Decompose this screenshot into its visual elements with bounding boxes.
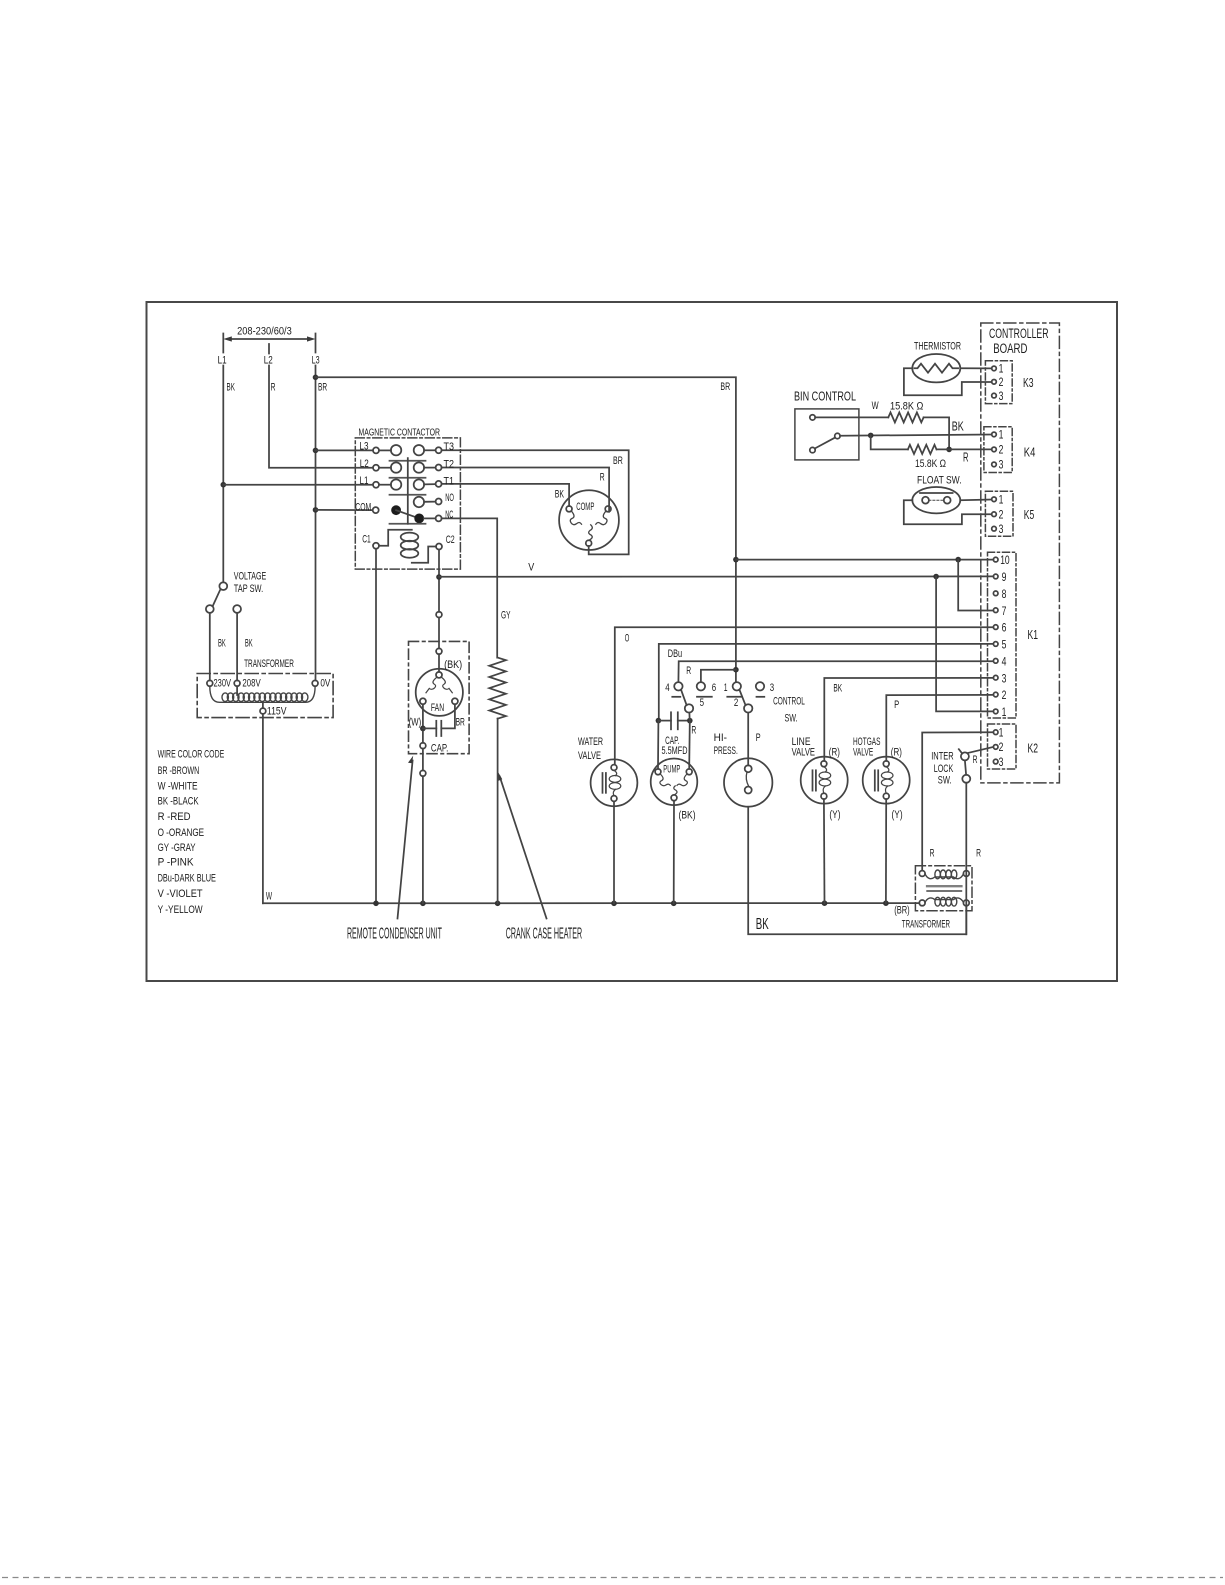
svg-text:208-230/60/3: 208-230/60/3 [237,326,292,338]
svg-text:9: 9 [1002,570,1007,584]
svg-text:V -VIOLET: V -VIOLET [158,888,203,900]
wire 208V tap into winding [236,686,238,695]
wire V line to K1 pin 9 [439,575,993,577]
wire C1 drop to bus [375,549,377,904]
svg-text:CONTROL: CONTROL [773,695,805,707]
svg-text:THERMISTOR: THERMISTOR [914,341,961,353]
svg-text:R: R [691,725,696,737]
wire NC link [424,517,436,519]
wire K1 pin4 to control sw 4 [678,661,993,682]
wire 115V tap [262,702,264,708]
transformer terminal 230V [207,680,213,686]
svg-text:BK: BK [245,638,253,650]
svg-text:GY -GRAY: GY -GRAY [158,842,196,854]
svg-text:230V: 230V [214,678,232,690]
node bus-watervalve [611,901,617,907]
wire pump right lead [688,721,691,769]
wire L3 vertical [315,366,317,681]
node R junction [946,447,952,453]
contactor terminal COM [373,507,379,513]
svg-text:(Y): (Y) [892,809,903,821]
svg-text:BK: BK [833,683,842,695]
wire line valve drop [823,799,826,903]
svg-text:3: 3 [999,458,1004,472]
svg-text:15.8K Ω: 15.8K Ω [915,458,946,470]
bin control box [795,409,859,460]
dimension line 208-230/60/3 [223,334,315,354]
wire condenser drop to bus [422,776,424,903]
wire thermistor to K3 pin1 [960,367,991,369]
fan feed terminal [436,648,442,654]
svg-text:3: 3 [770,682,774,694]
wire C2 to fan feed [436,612,442,618]
svg-text:BR: BR [318,381,327,393]
svg-text:K2: K2 [1028,741,1039,756]
wire BR top run to right and down [316,377,736,682]
interlock switch [959,749,971,783]
connector K1 [988,552,1017,718]
wire control sw 5 drop [688,713,690,721]
svg-text:W: W [266,891,273,903]
svg-text:2: 2 [999,740,1004,754]
BR transformer core [927,885,961,887]
capacitor fan CAP [423,704,455,736]
transformer winding [210,686,315,702]
svg-text:R: R [930,847,935,859]
wire branch to control sw terminal 6 [701,670,736,682]
svg-text:VALVE: VALVE [792,746,815,758]
svg-text:INTER: INTER [931,750,954,762]
svg-text:FAN: FAN [431,702,444,714]
svg-text:LOCK: LOCK [934,763,954,775]
node L3-COM junction [313,507,319,513]
contactor terminal T3 [436,447,442,453]
BR transformer secondary [919,900,925,906]
svg-text:NC: NC [445,509,453,521]
arrow to crank case heater [498,772,547,919]
svg-text:BK -BLACK: BK -BLACK [158,796,199,808]
wire K1 pin1 riser [936,577,993,712]
BR transformer box [915,866,972,911]
node pin10-pin7 junction [955,557,961,563]
svg-text:10: 10 [1000,553,1010,567]
svg-text:1: 1 [999,362,1004,376]
svg-text:SW.: SW. [938,775,952,787]
svg-text:1: 1 [999,493,1004,507]
svg-text:BR: BR [613,455,623,467]
svg-text:VALVE: VALVE [578,750,601,762]
svg-text:R: R [973,754,978,766]
wire control sw 2 drop [747,713,749,766]
capacitor CAP 5.5MFD [658,712,689,729]
node L3-BR junction [313,375,319,381]
terminal CAP [420,743,426,749]
contactor terminal L3 [373,447,379,453]
svg-text:W -WHITE: W -WHITE [158,780,198,792]
node bus-C1 [373,901,379,907]
svg-text:BK: BK [227,381,236,393]
wire float to K5 pin2 [904,500,992,524]
svg-text:2: 2 [1002,688,1007,702]
svg-text:2: 2 [999,508,1004,522]
svg-text:PRESS.: PRESS. [714,745,738,757]
svg-text:7: 7 [1002,604,1007,618]
svg-text:BK: BK [218,638,226,650]
svg-text:BR: BR [720,381,730,393]
contactor COM moving contact [391,505,401,515]
wire K1 pin3 to line valve [824,678,993,761]
wire interlock drop to transformer [965,783,967,935]
svg-text:L2: L2 [264,355,273,367]
wire 115V drop to bus [262,714,264,903]
svg-text:TRANSFORMER: TRANSFORMER [902,918,950,930]
svg-text:NO: NO [445,492,454,504]
svg-text:5: 5 [700,697,704,709]
node bus-hotgas [883,900,889,906]
svg-text:1: 1 [999,428,1004,442]
svg-text:BK: BK [756,916,769,933]
voltage tap switch [206,582,241,613]
svg-text:1: 1 [724,682,728,694]
contactor blade COM-NC [396,510,419,518]
compressor COMP [559,490,619,550]
svg-text:T3: T3 [444,441,455,453]
node cap left [656,718,662,724]
wire K1 pin2 to hotgas valve [886,695,993,761]
node bus-heater [495,901,501,907]
svg-text:SW.: SW. [785,712,798,724]
node BR-terminal6 junction [733,667,739,673]
wire K1 pin10 line [736,559,994,561]
wire L3 into contactor [316,449,373,451]
connector K5 [985,491,1013,536]
svg-text:BIN CONTROL: BIN CONTROL [794,389,856,403]
contactor pole L1 contacts [379,479,436,489]
svg-text:WIRE COLOR CODE: WIRE COLOR CODE [158,748,225,760]
svg-text:BK: BK [952,420,964,434]
contactor terminal L2 [373,465,379,471]
svg-text:BK: BK [555,489,565,501]
svg-text:4: 4 [665,682,669,694]
crank case heater resistor [489,658,506,719]
remote condenser unit box [409,641,470,753]
svg-text:P: P [894,699,899,711]
svg-text:VALVE: VALVE [853,746,873,758]
svg-text:DBu: DBu [668,648,682,660]
node cap right [687,718,693,724]
svg-text:C2: C2 [446,534,455,546]
terminal condenser plug [420,770,426,776]
contactor NC moving contact [414,514,424,524]
svg-text:HI-: HI- [714,732,728,744]
controller board box [981,323,1060,783]
contactor bridge bars [390,461,426,524]
page bottom dashed rule [2,1577,1223,1579]
svg-text:DBu-DARK BLUE: DBu-DARK BLUE [158,873,217,885]
node V-pin1 junction [933,574,939,580]
svg-text:6: 6 [712,682,716,694]
thermistor [912,354,960,382]
contactor terminal T1 [436,481,442,487]
svg-text:K3: K3 [1023,375,1034,390]
contactor terminal C2 [436,544,442,550]
node L1-contactor junction [221,482,227,488]
wire pump left lead [657,721,659,769]
connector K2 [988,724,1017,769]
wire T2 to COMP (R) [442,468,609,512]
svg-text:(Y): (Y) [829,809,840,821]
contactor pole L2 contacts [379,462,436,472]
float switch [912,487,960,513]
svg-text:FLOAT SW.: FLOAT SW. [917,475,962,487]
transformer box [197,674,333,718]
svg-text:R: R [600,471,605,483]
svg-text:4: 4 [1002,654,1007,668]
hi-press switch [724,758,772,806]
contactor terminal NO [436,499,442,505]
contactor NO contact [414,497,436,507]
node BR-pin10 junction [733,557,739,563]
wire thermistor to K3 pin2 [904,368,992,395]
wire COM from L3 [316,509,373,511]
svg-text:WATER: WATER [578,736,603,748]
svg-text:R: R [686,665,691,677]
contactor pole L3 contacts [379,445,436,455]
contactor coil [379,530,436,563]
connector K4 [984,427,1012,473]
BR transformer primary [919,871,925,877]
wire DBu K1 pin5 to pump [659,644,994,718]
svg-text:K5: K5 [1024,507,1035,522]
svg-text:3: 3 [999,389,1004,403]
resistor 15.8K ohm lower [908,445,937,454]
svg-text:O: O [625,633,630,645]
svg-text:L1: L1 [218,355,227,367]
wire T3 to COMP (BR) [442,450,629,554]
svg-text:R -RED: R -RED [158,811,191,823]
node fan cap junction [420,726,426,732]
svg-text:15.8K Ω: 15.8K Ω [890,400,923,412]
svg-text:CAP.: CAP. [431,742,448,754]
svg-text:MAGNETIC CONTACTOR: MAGNETIC CONTACTOR [359,427,441,438]
wire lower branch [871,435,908,449]
pump motor [651,759,698,806]
svg-text:COM: COM [355,502,371,514]
svg-text:(BK): (BK) [444,659,462,671]
wire K2 pin2 to interlock [968,747,994,753]
transformer terminal 208V [234,680,240,686]
wire tap 208V drop [236,613,238,681]
svg-text:TAP SW.: TAP SW. [234,583,263,595]
svg-text:T1: T1 [444,476,455,488]
svg-text:3: 3 [1002,671,1007,685]
svg-text:P -PINK: P -PINK [158,857,194,869]
svg-text:L3: L3 [312,355,320,367]
node C2-V junction [436,574,442,580]
node bus-linevalve [822,900,828,906]
transformer terminal 115V [260,708,266,714]
wire resistor to BK node [924,417,950,446]
svg-text:R: R [271,381,276,393]
wire hotgas valve drop [885,799,887,903]
svg-text:VOLTAGE: VOLTAGE [234,571,266,583]
wire K2 pin1 to BR transformer primary [922,732,993,870]
svg-text:L1: L1 [360,475,369,487]
contactor armature [407,458,409,524]
transformer terminal 0V [312,680,318,686]
svg-text:0V: 0V [320,678,330,690]
wire L1 vertical [222,366,224,583]
svg-text:1: 1 [999,726,1004,740]
contactor terminal L1 [373,482,379,488]
contactor terminal T2 [436,465,442,471]
svg-text:2: 2 [999,443,1004,457]
wire tap 230V drop [209,613,211,681]
bin control contacts [810,415,840,453]
svg-text:W: W [872,400,879,412]
svg-text:(R): (R) [829,746,840,758]
wire L2 vertical [269,366,373,468]
svg-text:CRANK CASE HEATER: CRANK CASE HEATER [506,925,582,942]
node bus-condenser [420,901,426,907]
wire water valve drop [613,801,615,903]
node BK junction [868,433,874,439]
resistor 15.8K ohm upper [888,412,923,422]
svg-text:CONTROLLER: CONTROLLER [989,326,1049,341]
magnetic contactor box [355,438,460,569]
svg-text:(R): (R) [891,746,902,758]
svg-text:R: R [963,450,969,464]
svg-text:K1: K1 [1028,627,1039,642]
line valve [801,757,848,804]
wire K1 pin7 riser [958,560,993,611]
svg-text:(W): (W) [409,717,422,729]
svg-text:BR -BROWN: BR -BROWN [158,765,200,777]
wire heater drop to bus [497,719,499,904]
wire R to K4 pin2 [937,448,992,450]
svg-text:1: 1 [1002,705,1007,719]
svg-text:PUMP: PUMP [663,764,680,776]
svg-text:208V: 208V [242,678,261,690]
wire W lead to resistor [815,416,888,418]
water valve [591,759,638,806]
wire cap drop [422,731,424,743]
svg-text:BOARD: BOARD [993,341,1027,356]
svg-text:(BK): (BK) [679,810,696,822]
node L3-contactor junction [313,448,319,454]
svg-text:T2: T2 [444,458,455,470]
svg-text:C1: C1 [362,534,371,546]
wire BK line to K4 pin1 [840,435,992,436]
arrow to remote condenser unit [398,756,414,919]
svg-text:8: 8 [1002,587,1007,601]
wire pump drop to bus [673,801,675,904]
svg-text:L3: L3 [360,441,369,453]
hotgas valve [863,757,910,804]
border frame [147,302,1118,981]
node bus-pump [671,901,677,907]
svg-text:COMP: COMP [576,501,594,513]
svg-text:V: V [528,562,535,574]
wire float to K5 pin1 [960,499,991,502]
svg-text:2: 2 [734,697,738,709]
wire hi-press drop to BK return [748,807,966,935]
svg-text:2: 2 [999,375,1004,389]
wire NC to GY drop [442,518,498,657]
svg-text:K4: K4 [1024,445,1036,460]
contactor terminal NC [436,515,442,521]
wire O line K1 pin6 to water valve [615,627,994,764]
svg-text:3: 3 [999,755,1004,769]
svg-text:5.5MFD: 5.5MFD [662,745,688,757]
svg-text:REMOTE CONDENSER UNIT: REMOTE CONDENSER UNIT [347,925,442,942]
wire bottom W bus [263,902,919,904]
wire L1 into contactor [223,484,372,486]
svg-text:GY: GY [501,610,511,622]
svg-text:5: 5 [1002,638,1007,652]
connector K3 [985,361,1012,404]
svg-text:O -ORANGE: O -ORANGE [158,827,205,839]
svg-text:Y -YELLOW: Y -YELLOW [158,904,203,916]
svg-text:P: P [756,732,761,744]
wire T1 to COMP (BK) [442,484,569,506]
svg-text:TRANSFORMER: TRANSFORMER [244,658,294,670]
wire C2 drop [438,550,440,612]
svg-text:BR: BR [456,717,465,729]
wire fan left lead [422,704,424,725]
svg-text:115V: 115V [267,705,287,717]
contactor terminal C1 [373,543,379,549]
svg-text:6: 6 [1002,621,1007,635]
svg-text:R: R [976,847,981,859]
fan motor [416,669,463,716]
svg-text:L2: L2 [360,458,369,470]
control switch [672,682,764,713]
svg-text:(BR): (BR) [894,905,910,917]
svg-text:3: 3 [999,522,1004,536]
